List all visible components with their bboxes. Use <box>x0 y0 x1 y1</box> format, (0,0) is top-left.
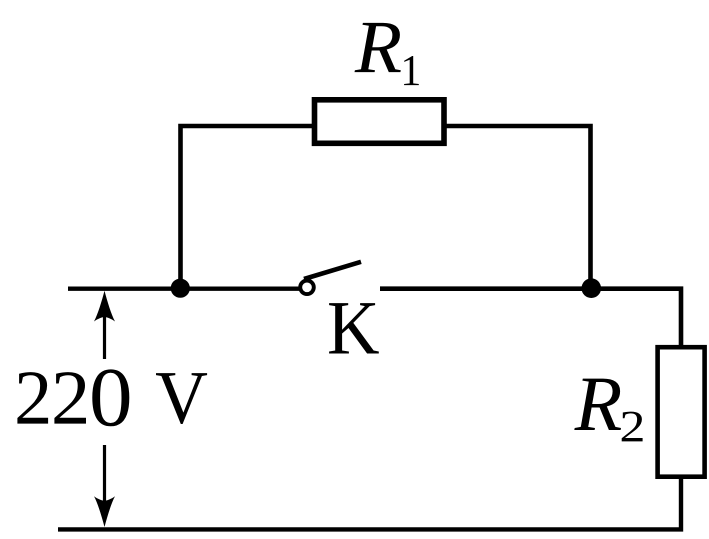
label R1: subscript 1 <box>404 56 419 85</box>
wire: middle rail left segment <box>68 287 299 291</box>
label K <box>329 303 379 353</box>
dimension arrow: lower shaft <box>103 445 106 505</box>
dimension arrow: upper arrowhead pointing up <box>94 291 115 322</box>
label 220 V: digit 2 (first) <box>17 372 48 424</box>
resistor R2 <box>658 347 705 477</box>
wire: left branch from top rail down to left node <box>181 126 314 289</box>
dimension arrow: lower arrowhead pointing down <box>94 496 115 527</box>
switch K pivot circle <box>300 281 314 295</box>
label 220 V: digit 2 (second) <box>54 372 86 424</box>
node: left junction dot <box>171 279 190 298</box>
label R2: letter R <box>574 379 621 430</box>
resistor R1 <box>315 100 445 144</box>
wire: top rail right segment and right branch down to right node <box>445 126 591 289</box>
label 220 V: digit 0 <box>92 369 129 426</box>
switch K lever <box>304 262 361 279</box>
label 220 V: letter V <box>156 373 207 424</box>
wire: R2 bottom to bottom rail <box>58 477 681 529</box>
dimension arrow: upper shaft <box>103 313 106 359</box>
wire: middle rail right segment to R2 top <box>380 289 681 347</box>
label R2: subscript 2 <box>622 412 643 442</box>
node: right junction dot <box>582 278 602 298</box>
label R1: letter R <box>355 23 401 72</box>
